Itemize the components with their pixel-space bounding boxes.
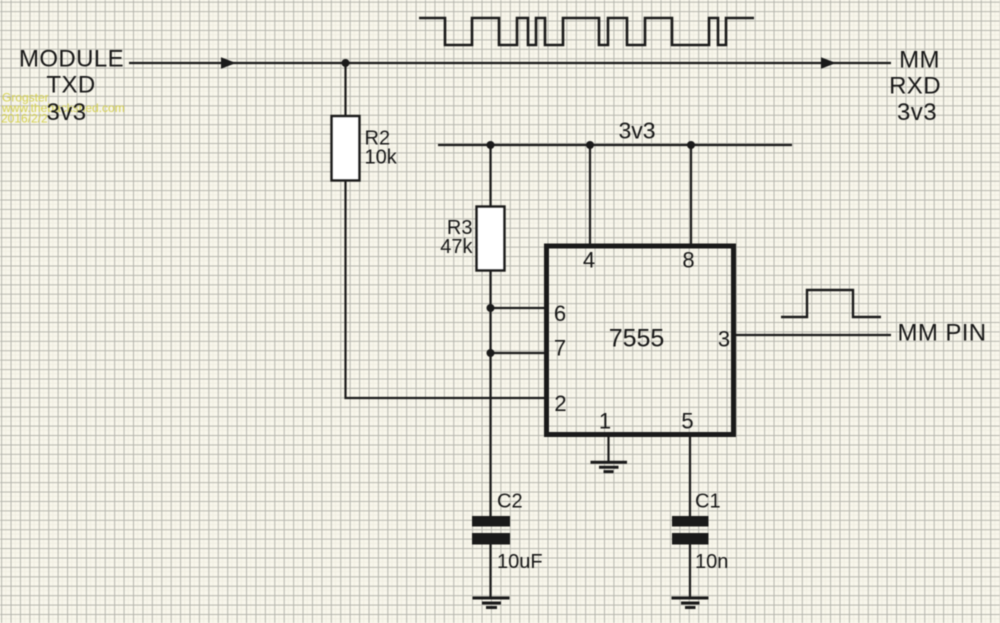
svg-text:MODULE: MODULE <box>19 46 124 73</box>
svg-text:3v3: 3v3 <box>618 118 655 144</box>
svg-text:5: 5 <box>681 409 693 434</box>
svg-text:10uF: 10uF <box>497 551 543 573</box>
svg-text:C1: C1 <box>695 491 721 513</box>
svg-text:10n: 10n <box>695 551 728 573</box>
svg-text:TXD: TXD <box>46 72 95 99</box>
svg-text:10k: 10k <box>365 146 398 168</box>
svg-text:2: 2 <box>554 391 566 416</box>
svg-text:6: 6 <box>554 301 566 326</box>
svg-text:4: 4 <box>583 247 595 272</box>
svg-text:3v3: 3v3 <box>47 99 87 126</box>
svg-text:7555: 7555 <box>609 325 665 353</box>
svg-text:2016/2/2: 2016/2/2 <box>1 112 48 126</box>
svg-text:47k: 47k <box>440 236 473 258</box>
svg-text:8: 8 <box>682 247 694 272</box>
svg-text:MM: MM <box>899 47 940 74</box>
svg-text:C2: C2 <box>497 491 523 513</box>
svg-text:MM PIN: MM PIN <box>897 320 986 347</box>
svg-text:3: 3 <box>718 327 730 352</box>
svg-text:1: 1 <box>599 409 611 434</box>
svg-text:3v3: 3v3 <box>897 99 937 126</box>
svg-text:RXD: RXD <box>889 73 941 100</box>
svg-text:7: 7 <box>554 336 566 361</box>
